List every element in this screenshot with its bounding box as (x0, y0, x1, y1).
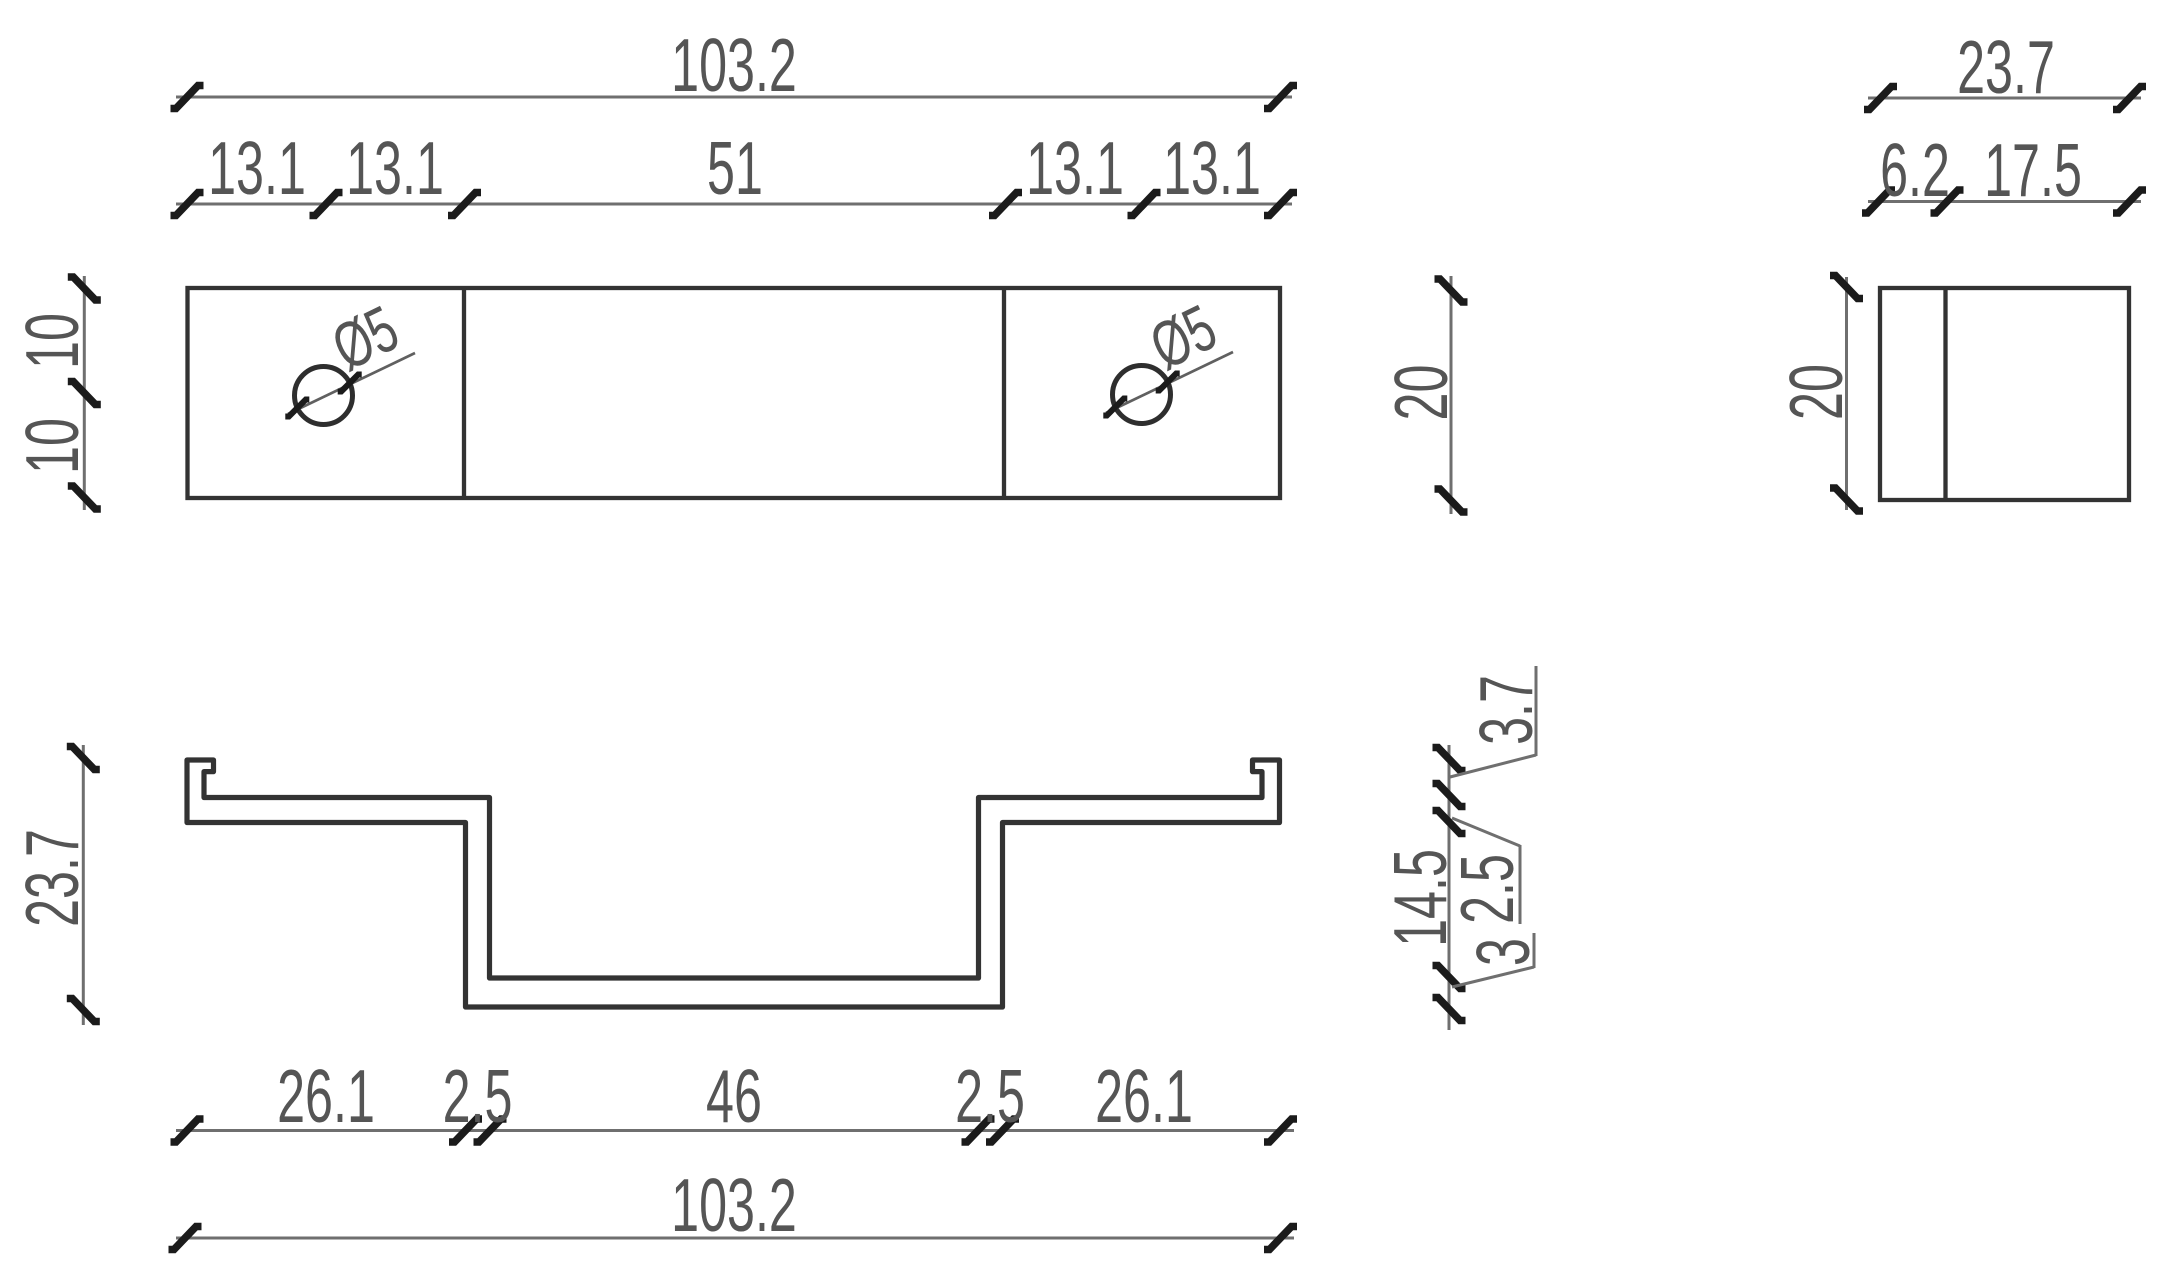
dim 10 tick middle (68, 382, 101, 405)
dimension 20 side line (1845, 277, 1848, 510)
svg-text:13.1: 13.1 (1026, 126, 1124, 211)
hole circle right (1113, 366, 1171, 424)
dim 6.2 tick mid (1931, 190, 1964, 213)
hole right leader tick upper (1156, 374, 1180, 391)
row2 tick 3 (448, 193, 481, 216)
profile section outline (187, 760, 1280, 1007)
hole right diameter leader line (1106, 352, 1233, 413)
dimension 23.7 top line (1868, 97, 2141, 100)
leader 2.5 landing (1519, 845, 1522, 924)
right dim tick flange top (1433, 784, 1466, 807)
dimension 10 10 left line (83, 276, 86, 510)
hole right leader tick lower (1103, 399, 1127, 416)
bottom 103.2 tick left (169, 1227, 202, 1250)
right dim tick channel outer (1433, 998, 1466, 1021)
front view outline rectangle (188, 288, 1281, 498)
dim 20 mid tick bottom (1435, 489, 1468, 512)
bottom 103.2 tick right (1264, 1227, 1297, 1250)
svg-text:46: 46 (706, 1054, 762, 1139)
svg-text:10: 10 (10, 418, 95, 474)
dim 10 tick top (68, 277, 101, 300)
dim 103.2 top tick right (1264, 86, 1297, 109)
dim 10 tick bottom (68, 486, 101, 509)
hole left leader tick upper (338, 375, 362, 392)
leader 3 diagonal (1452, 967, 1534, 987)
svg-text:26.1: 26.1 (277, 1054, 375, 1139)
svg-text:20: 20 (1774, 364, 1859, 420)
svg-text:20: 20 (1379, 365, 1464, 421)
svg-text:2.5: 2.5 (1445, 854, 1530, 924)
row1 tick 2 (449, 1119, 482, 1142)
front view left divider line (462, 288, 466, 498)
svg-text:13.1: 13.1 (1163, 126, 1261, 211)
dim 20 side tick bottom (1830, 488, 1863, 511)
profile bottom 103.2 line (176, 1237, 1294, 1240)
dim 23.7 tick right (2113, 87, 2146, 110)
side view outline rectangle (1880, 288, 2129, 500)
svg-text:103.2: 103.2 (671, 1163, 797, 1248)
profile right dim line (1448, 745, 1451, 1030)
front view right divider line (1002, 288, 1006, 498)
dimension row 13.1/13.1/51/13.1/13.1 line (176, 203, 1292, 206)
svg-text:13.1: 13.1 (208, 126, 306, 211)
svg-text:6.2: 6.2 (1880, 128, 1950, 213)
dimension 103.2 top line (176, 96, 1292, 99)
row2 tick 2 (310, 193, 343, 216)
svg-text:51: 51 (707, 126, 763, 211)
right dim tick 3.7 top (1433, 748, 1466, 771)
row1 tick 5 (986, 1119, 1019, 1142)
dim 23.7 profile tick bottom (67, 999, 100, 1022)
row2 tick 1 (171, 193, 204, 216)
dimension 20 mid line (1450, 276, 1453, 514)
leader 3.7 landing (1535, 666, 1538, 756)
leader 3.7 diagonal (1450, 755, 1536, 777)
svg-text:103.2: 103.2 (671, 23, 797, 108)
dim 20 side tick top (1830, 276, 1863, 299)
leader 2.5 diagonal (1452, 818, 1520, 846)
svg-text:3.7: 3.7 (1464, 675, 1549, 745)
svg-text:2.5: 2.5 (443, 1054, 513, 1139)
row2 tick 5 (1128, 193, 1161, 216)
dim 23.7 profile tick top (67, 747, 100, 770)
dimension 6.2 17.5 line (1868, 200, 2141, 203)
row2 tick 6 (1264, 193, 1297, 216)
svg-text:13.1: 13.1 (346, 126, 444, 211)
row1 tick 3 (474, 1119, 507, 1142)
svg-text:26.1: 26.1 (1095, 1054, 1193, 1139)
right dim tick flange bottom (1433, 811, 1466, 834)
hole circle left (295, 367, 353, 425)
dim 20 mid tick top (1435, 279, 1468, 302)
row2 tick 4 (989, 193, 1022, 216)
svg-text:17.5: 17.5 (1984, 128, 2082, 213)
hole left leader tick lower (285, 400, 309, 417)
row1 tick 4 (962, 1119, 995, 1142)
svg-text:3: 3 (1461, 938, 1546, 966)
leader 3 landing (1533, 933, 1536, 968)
profile bottom row 26.1/2.5/46/2.5/26.1 line (176, 1129, 1294, 1132)
dim 6.2 tick left (1862, 190, 1895, 213)
hole left diameter leader line (288, 353, 415, 414)
dim 103.2 top tick left (171, 86, 204, 109)
svg-text:23.7: 23.7 (10, 829, 95, 927)
svg-text:23.7: 23.7 (1957, 25, 2055, 110)
dim 23.7 tick left (1864, 87, 1897, 110)
row1 tick 6 (1264, 1119, 1297, 1142)
svg-text:2.5: 2.5 (955, 1054, 1025, 1139)
right dim tick channel inner (1433, 966, 1466, 989)
dim 17.5 tick right (2113, 190, 2146, 213)
dimension 23.7 profile line (82, 745, 85, 1025)
side view divider line (1943, 288, 1947, 500)
row1 tick 1 (171, 1119, 204, 1142)
svg-text:10: 10 (10, 313, 95, 369)
